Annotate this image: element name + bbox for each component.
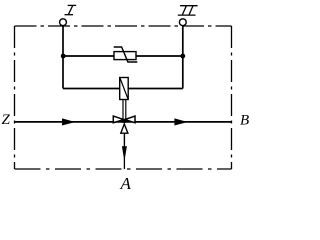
throttle valve body bbox=[114, 52, 136, 60]
check triangle below (open, pointing up) bbox=[121, 124, 128, 133]
flow arrow right (filled) bbox=[174, 118, 187, 125]
label II (roman numeral) bbox=[178, 6, 198, 15]
enclosure boundary left edge bbox=[14, 26, 16, 169]
wire: upper horizontal through throttle bbox=[63, 55, 183, 57]
enclosure boundary right edge bbox=[231, 26, 233, 169]
wire: valve to down arrow bbox=[123, 133, 125, 147]
svg-text:B: B bbox=[240, 113, 249, 129]
svg-text:Z: Z bbox=[2, 112, 11, 128]
valve center junction blob bbox=[122, 119, 126, 123]
port I circle bbox=[60, 19, 67, 26]
junction dot left bbox=[61, 54, 66, 59]
wire: port I drop from circle to lower loop bbox=[62, 26, 64, 89]
valve right triangle (hollow) bbox=[125, 116, 135, 123]
rod double line right bbox=[125, 100, 127, 121]
valve left triangle (hollow) bbox=[113, 116, 124, 123]
label I (roman numeral) bbox=[65, 5, 77, 14]
slide/orifice element body bbox=[120, 78, 129, 100]
junction dot right bbox=[180, 54, 185, 59]
enclosure boundary top edge bbox=[15, 25, 232, 27]
rod double line left bbox=[122, 100, 124, 121]
wire: port II drop from circle to lower loop bbox=[182, 26, 184, 89]
wire: main line Z to B bbox=[15, 121, 232, 123]
wire: lower loop left horizontal bbox=[63, 88, 120, 90]
slide/orifice element diagonal bbox=[120, 78, 128, 99]
flow arrow left (filled) bbox=[62, 118, 75, 125]
wire: lower loop right horizontal bbox=[128, 88, 183, 90]
enclosure boundary bottom edge bbox=[15, 168, 232, 170]
svg-text:A: A bbox=[120, 174, 132, 193]
wire: arrow tip to bottom boundary bbox=[123, 158, 125, 169]
down arrow to port A (filled) bbox=[122, 146, 127, 161]
throttle valve adjustment slash bbox=[114, 47, 138, 62]
port II circle bbox=[179, 19, 186, 26]
